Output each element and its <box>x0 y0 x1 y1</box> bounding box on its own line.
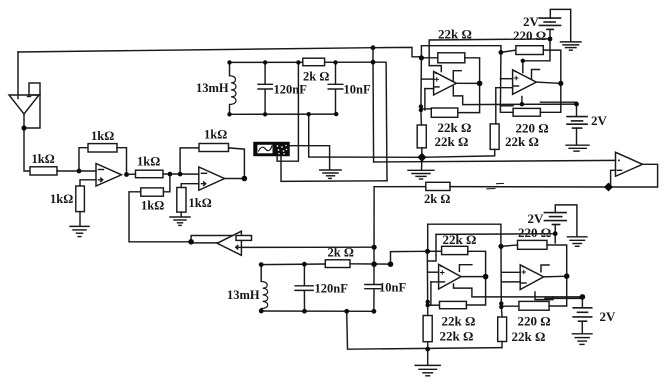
svg-text:1kΩ: 1kΩ <box>32 152 55 166</box>
svg-text:10nF: 10nF <box>344 83 371 97</box>
svg-text:13mH: 13mH <box>196 81 229 95</box>
svg-text:2k Ω: 2k Ω <box>424 192 450 206</box>
svg-text:2V: 2V <box>528 211 545 226</box>
svg-text:120nF: 120nF <box>315 282 349 296</box>
svg-text:2k Ω: 2k Ω <box>328 246 354 260</box>
svg-text:220 Ω: 220 Ω <box>513 28 546 43</box>
svg-text:2V: 2V <box>591 113 608 128</box>
svg-text:22k Ω: 22k Ω <box>442 314 476 329</box>
svg-text:22k Ω: 22k Ω <box>435 134 469 149</box>
svg-text:1kΩ: 1kΩ <box>141 199 164 213</box>
svg-text:2k Ω: 2k Ω <box>303 70 329 84</box>
svg-text:10nF: 10nF <box>379 281 406 295</box>
svg-text:1kΩ: 1kΩ <box>50 192 73 206</box>
svg-text:22k Ω: 22k Ω <box>505 134 539 149</box>
svg-text:2V: 2V <box>600 309 617 324</box>
svg-text:22k Ω: 22k Ω <box>438 27 472 42</box>
svg-text:22k Ω: 22k Ω <box>440 329 474 344</box>
svg-text:120nF: 120nF <box>274 83 308 97</box>
svg-text:22k Ω: 22k Ω <box>512 329 546 344</box>
svg-text:220 Ω: 220 Ω <box>518 225 551 240</box>
svg-text:13mH: 13mH <box>227 288 260 302</box>
svg-text:1kΩ: 1kΩ <box>137 155 160 169</box>
svg-text:2V: 2V <box>523 14 540 29</box>
svg-text:22k Ω: 22k Ω <box>443 232 477 247</box>
svg-text:1kΩ: 1kΩ <box>189 196 212 210</box>
svg-text:22k Ω: 22k Ω <box>438 120 472 135</box>
svg-text:220 Ω: 220 Ω <box>518 313 551 328</box>
svg-text:1kΩ: 1kΩ <box>204 128 227 142</box>
svg-text:1kΩ: 1kΩ <box>91 129 114 143</box>
